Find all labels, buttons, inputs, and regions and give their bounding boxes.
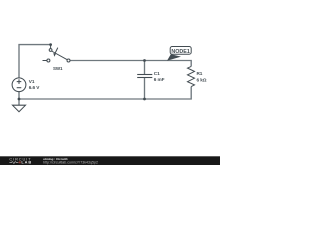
junction dot V1 bottom node: [18, 98, 21, 101]
svg-text:V1: V1: [29, 79, 35, 84]
node flag NODE1 box: [170, 47, 191, 55]
wire C1 bottom lead: [144, 78, 146, 99]
footer logo squiggle: [9, 162, 18, 164]
open throw stub: [43, 60, 47, 62]
svg-text:http://circuitlab.com/c/Y73k43: http://circuitlab.com/c/Y73k43q5p2: [43, 160, 98, 164]
footer bar: [0, 156, 220, 165]
wire switch right throw to R1 top: [70, 61, 191, 67]
switch SW1: [43, 45, 71, 62]
svg-text:LAB: LAB: [21, 160, 32, 165]
actuator arrow shaft: [55, 48, 58, 54]
voltage source V1: [12, 78, 26, 92]
wire V1 bottom lead: [18, 91, 20, 99]
pole stub: [50, 45, 52, 49]
label C1 value: [154, 71, 165, 82]
junction dot at switch top node: [49, 43, 52, 46]
actuator arrowhead: [53, 53, 56, 57]
svg-text:6 kΩ: 6 kΩ: [197, 77, 207, 82]
lever: [52, 51, 68, 60]
footer logo red accent: [19, 161, 21, 163]
ground symbol: [13, 105, 26, 112]
label R1 value: [197, 71, 207, 82]
wire ground stub: [18, 99, 20, 105]
capacitor C1 plates: [137, 75, 152, 78]
label V1 value: [29, 79, 40, 90]
wire R1 bottom to bottom rail: [19, 87, 191, 99]
svg-text:C1: C1: [154, 71, 160, 76]
junction dot C1 bottom node: [143, 98, 146, 101]
junction dot C1 top node: [143, 59, 146, 62]
closed throw terminal circle: [67, 59, 70, 62]
pole terminal circle: [49, 49, 52, 52]
svg-text:NODE1: NODE1: [171, 49, 189, 55]
svg-text:6 mF: 6 mF: [154, 77, 165, 82]
open throw terminal circle: [47, 59, 50, 62]
resistor R1 zigzag: [188, 66, 195, 86]
svg-text:SW1: SW1: [53, 66, 63, 71]
svg-text:6.6 V: 6.6 V: [29, 85, 40, 90]
wire V1 top to switch pole: [19, 45, 51, 78]
node flag NODE1 pointer: [167, 54, 181, 61]
svg-text:R1: R1: [197, 71, 203, 76]
wire C1 top lead: [144, 61, 146, 75]
